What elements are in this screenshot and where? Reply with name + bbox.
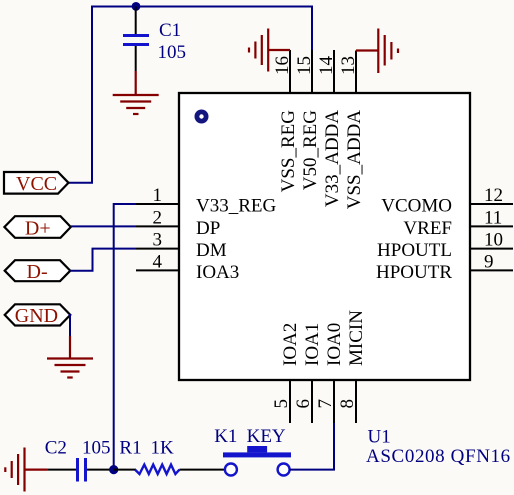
pin 14 lead (333, 50, 335, 93)
wire net D+ from flag to pin 2 (71, 225, 136, 227)
junction dot on VCC rail at C1 (132, 2, 141, 11)
pin 8 lead (355, 380, 357, 423)
svg-text:ASC0208 QFN16: ASC0208 QFN16 (366, 446, 511, 467)
resistor R1 left lead (114, 469, 136, 471)
donut marker inside U1 (195, 110, 209, 124)
pin 10 lead (470, 248, 513, 250)
svg-text:11: 11 (484, 208, 502, 229)
pin 16 lead (289, 50, 291, 93)
capacitor C2 right lead (87, 469, 114, 471)
svg-text:VREF: VREF (403, 218, 452, 239)
capacitor C1 top lead (135, 7, 137, 35)
svg-text:5: 5 (271, 399, 292, 409)
power port flag VCC (4, 172, 69, 195)
svg-text:VCC: VCC (16, 173, 57, 195)
pin 1 lead (136, 203, 179, 205)
svg-text:V33_ADDA: V33_ADDA (322, 110, 343, 207)
svg-text:VSS_REG: VSS_REG (278, 110, 299, 193)
svg-text:K1: K1 (214, 426, 237, 447)
svg-text:MICIN: MICIN (346, 310, 367, 366)
pin 12 lead (470, 203, 513, 205)
pin 15 lead (311, 50, 313, 93)
svg-text:12: 12 (484, 185, 503, 206)
ground symbol right of pin 13 (356, 29, 398, 74)
port flag D- (5, 260, 71, 283)
svg-text:HPOUTL: HPOUTL (377, 240, 452, 261)
port flag D+ (4, 216, 70, 239)
pin 3 lead (136, 248, 179, 250)
pin 9 lead (470, 269, 513, 271)
svg-text:V50_REG: V50_REG (300, 110, 321, 191)
svg-text:8: 8 (337, 399, 358, 409)
svg-text:14: 14 (316, 56, 337, 76)
wire net from K1 to pin 7 (IOA0) (289, 423, 334, 470)
svg-text:IOA0: IOA0 (324, 323, 345, 366)
svg-text:6: 6 (293, 399, 314, 409)
svg-text:2: 2 (153, 208, 163, 229)
resistor R1 zigzag body (135, 465, 180, 474)
svg-text:10: 10 (484, 230, 503, 251)
svg-text:VSS_ADDA: VSS_ADDA (344, 110, 365, 210)
svg-text:16: 16 (272, 56, 293, 75)
capacitor C2 left lead (47, 469, 76, 471)
svg-text:D+: D+ (25, 218, 51, 240)
svg-text:C2: C2 (45, 438, 67, 459)
svg-text:DP: DP (196, 218, 220, 239)
wire net D- from flag with jog up to pin 3 (70, 249, 136, 271)
IC U1 body (179, 93, 470, 380)
svg-text:V33_REG: V33_REG (196, 196, 277, 217)
svg-text:IOA2: IOA2 (280, 323, 301, 366)
svg-text:105: 105 (82, 438, 111, 459)
ground symbol bottom-left (5, 448, 47, 492)
svg-text:D-: D- (27, 261, 48, 283)
svg-text:4: 4 (153, 252, 163, 273)
ground symbol left of pin 16 (249, 29, 290, 72)
svg-text:U1: U1 (368, 427, 391, 448)
pin 7 lead (333, 380, 335, 423)
pin 2 lead (136, 225, 179, 227)
junction dot node C2/R1/V33_REG (109, 465, 118, 474)
pin 5 lead (289, 380, 291, 423)
capacitor C2 plates (78, 458, 86, 482)
svg-text:13: 13 (338, 56, 359, 75)
ground symbol below GND flag (47, 336, 93, 378)
svg-text:C1: C1 (159, 20, 181, 41)
svg-text:R1: R1 (119, 438, 141, 459)
switch K1 push-button (223, 446, 291, 476)
svg-text:7: 7 (315, 399, 336, 409)
svg-text:GND: GND (15, 305, 58, 327)
wire net VCC: flag tip to riser, top rail, drop to pin 15 (V50_REG) (69, 7, 313, 183)
capacitor C1 plates (123, 36, 149, 45)
svg-text:105: 105 (158, 42, 187, 63)
svg-text:9: 9 (484, 252, 494, 273)
svg-text:HPOUTR: HPOUTR (376, 262, 452, 283)
ground symbol below C1 (113, 71, 159, 114)
svg-text:1K: 1K (151, 438, 175, 459)
pin 13 lead (355, 51, 357, 94)
pin 6 lead (311, 380, 313, 423)
svg-text:15: 15 (294, 56, 315, 75)
svg-text:1: 1 (153, 185, 163, 206)
svg-text:IOA1: IOA1 (302, 323, 323, 366)
pin 11 lead (470, 225, 513, 227)
svg-text:IOA3: IOA3 (196, 262, 239, 283)
power port flag GND (5, 304, 71, 327)
svg-text:3: 3 (153, 230, 163, 251)
resistor R1 right lead (180, 469, 226, 471)
svg-text:KEY: KEY (247, 426, 286, 447)
capacitor C1 bottom lead (135, 46, 137, 71)
pin 4 lead (136, 269, 179, 271)
svg-text:DM: DM (196, 240, 227, 261)
wire net V33_REG: pin 1 down to C2/R1 junction (114, 204, 136, 470)
wire GND flag down to ground (69, 315, 71, 336)
svg-text:VCOMO: VCOMO (381, 196, 452, 217)
